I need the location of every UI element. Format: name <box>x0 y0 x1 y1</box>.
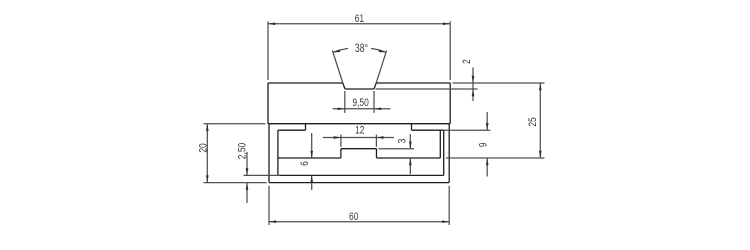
svg-text:2,50: 2,50 <box>237 142 250 159</box>
svg-text:25: 25 <box>527 117 540 127</box>
svg-text:2: 2 <box>461 59 474 64</box>
svg-text:6: 6 <box>299 161 312 166</box>
svg-text:60: 60 <box>349 211 359 224</box>
svg-text:9,50: 9,50 <box>352 97 369 110</box>
svg-text:38°: 38° <box>355 43 368 56</box>
svg-text:9: 9 <box>478 142 491 147</box>
svg-text:12: 12 <box>355 124 365 137</box>
svg-text:20: 20 <box>197 143 210 153</box>
svg-text:3: 3 <box>396 138 409 143</box>
svg-text:61: 61 <box>355 13 365 26</box>
